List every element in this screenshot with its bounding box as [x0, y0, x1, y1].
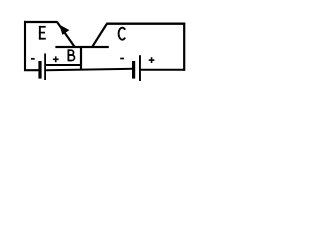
battery B1 positive plate (long thin)	[44, 54, 46, 81]
transistor Q1 emitter arrowhead	[59, 25, 69, 35]
battery B2 positive plate (long thin)	[139, 55, 141, 81]
label plus of B1	[53, 56, 59, 62]
label C	[119, 28, 126, 40]
label B	[68, 49, 75, 61]
label plus of B2	[149, 57, 155, 63]
wire right edge	[183, 23, 185, 71]
label minus of B1	[31, 58, 35, 60]
transistor Q1 emitter lead	[57, 22, 75, 48]
battery B1 negative plate (short thick)	[38, 61, 41, 79]
wire bottom right segment	[141, 69, 186, 71]
transistor Q1 base bar	[55, 46, 108, 48]
transistor Q1 collector lead	[92, 24, 107, 47]
wire bottom middle segment	[46, 69, 133, 70]
wire bottom left segment	[24, 69, 39, 71]
wire top edge of emitter box	[24, 21, 57, 23]
label minus of B2	[120, 58, 124, 60]
label E	[39, 26, 46, 40]
wire left edge	[24, 21, 26, 71]
wire top right segment	[106, 23, 185, 25]
wire vertical from base to bottom	[80, 47, 82, 70]
wire upper stub from B1 plus to base vertical	[46, 64, 83, 66]
battery B2 negative plate (short thick)	[132, 61, 135, 79]
